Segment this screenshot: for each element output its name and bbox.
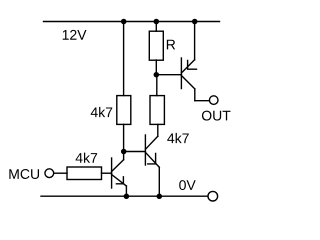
label 12V — [63, 30, 87, 40]
transistor Q1 collector diagonal — [112, 160, 124, 172]
transistor Q2 emitter diagonal — [145, 152, 159, 167]
transistor Q2 collector diagonal — [145, 136, 157, 149]
wire Q3 emitter to rail — [194, 22, 196, 60]
label 4k7M — [76, 153, 98, 163]
transistor Q2 emitter arrow — [148, 154, 156, 164]
transistor Q2 base bar — [144, 135, 146, 165]
label 4k7A — [91, 107, 113, 117]
resistor 4k7 left pull-up — [117, 96, 131, 125]
label MCU — [9, 169, 39, 179]
wire node to Q2 base — [124, 151, 146, 153]
node junction 12V / left pull-up — [121, 19, 127, 25]
transistor Q1 emitter diagonal — [112, 175, 127, 187]
wire R bottom to node — [155, 60, 157, 75]
node Q1 emitter / 0V — [124, 194, 129, 200]
terminal OUT — [209, 96, 218, 105]
wire right resistor to Q2 collector — [157, 124, 159, 136]
node Q1 collector / Q2 base — [121, 149, 127, 155]
label OUT — [202, 111, 231, 121]
wire Q3 collector to OUT — [195, 100, 210, 102]
wire left pull-up to Q1 collector node — [123, 124, 125, 159]
label 0V — [179, 180, 196, 190]
node junction 12V / PNP emitter — [192, 19, 198, 25]
wire R top — [155, 22, 157, 32]
wire node down to right resistor — [156, 75, 158, 96]
wire Q2 emitter to 0V rail — [158, 167, 160, 196]
node junction 12V / R column — [154, 19, 160, 25]
terminal MCU — [45, 169, 54, 178]
node Q2 emitter / 0V — [157, 194, 163, 200]
transistor Q1 base bar — [111, 158, 113, 188]
wire node to PNP base — [156, 74, 181, 76]
wire left pull-up column from rail — [123, 22, 125, 96]
wire resistor to Q1 base — [102, 172, 112, 174]
resistor 4k7 MCU series — [67, 167, 102, 180]
transistor Q1 emitter arrow — [116, 177, 123, 184]
wire 12V top rail — [44, 21, 220, 23]
transistor Q3 PNP base bar — [180, 58, 182, 89]
transistor Q3 emitter diagonal — [181, 60, 194, 73]
terminal 0V — [208, 191, 218, 201]
resistor 4k7 right — [150, 96, 164, 125]
label 4k7B — [167, 133, 189, 143]
wire Q1 emitter to 0V rail — [125, 186, 127, 196]
node R / PNP base / right pull-up — [154, 72, 160, 78]
transistor Q3 collector diagonal — [181, 76, 194, 89]
wire 0V bottom rail — [41, 195, 208, 197]
transistor Q3 emitter arrow — [188, 61, 197, 70]
resistor R — [149, 31, 163, 60]
wire Q3 collector down — [194, 89, 196, 101]
wire MCU to resistor — [54, 172, 67, 174]
label R — [167, 40, 175, 50]
